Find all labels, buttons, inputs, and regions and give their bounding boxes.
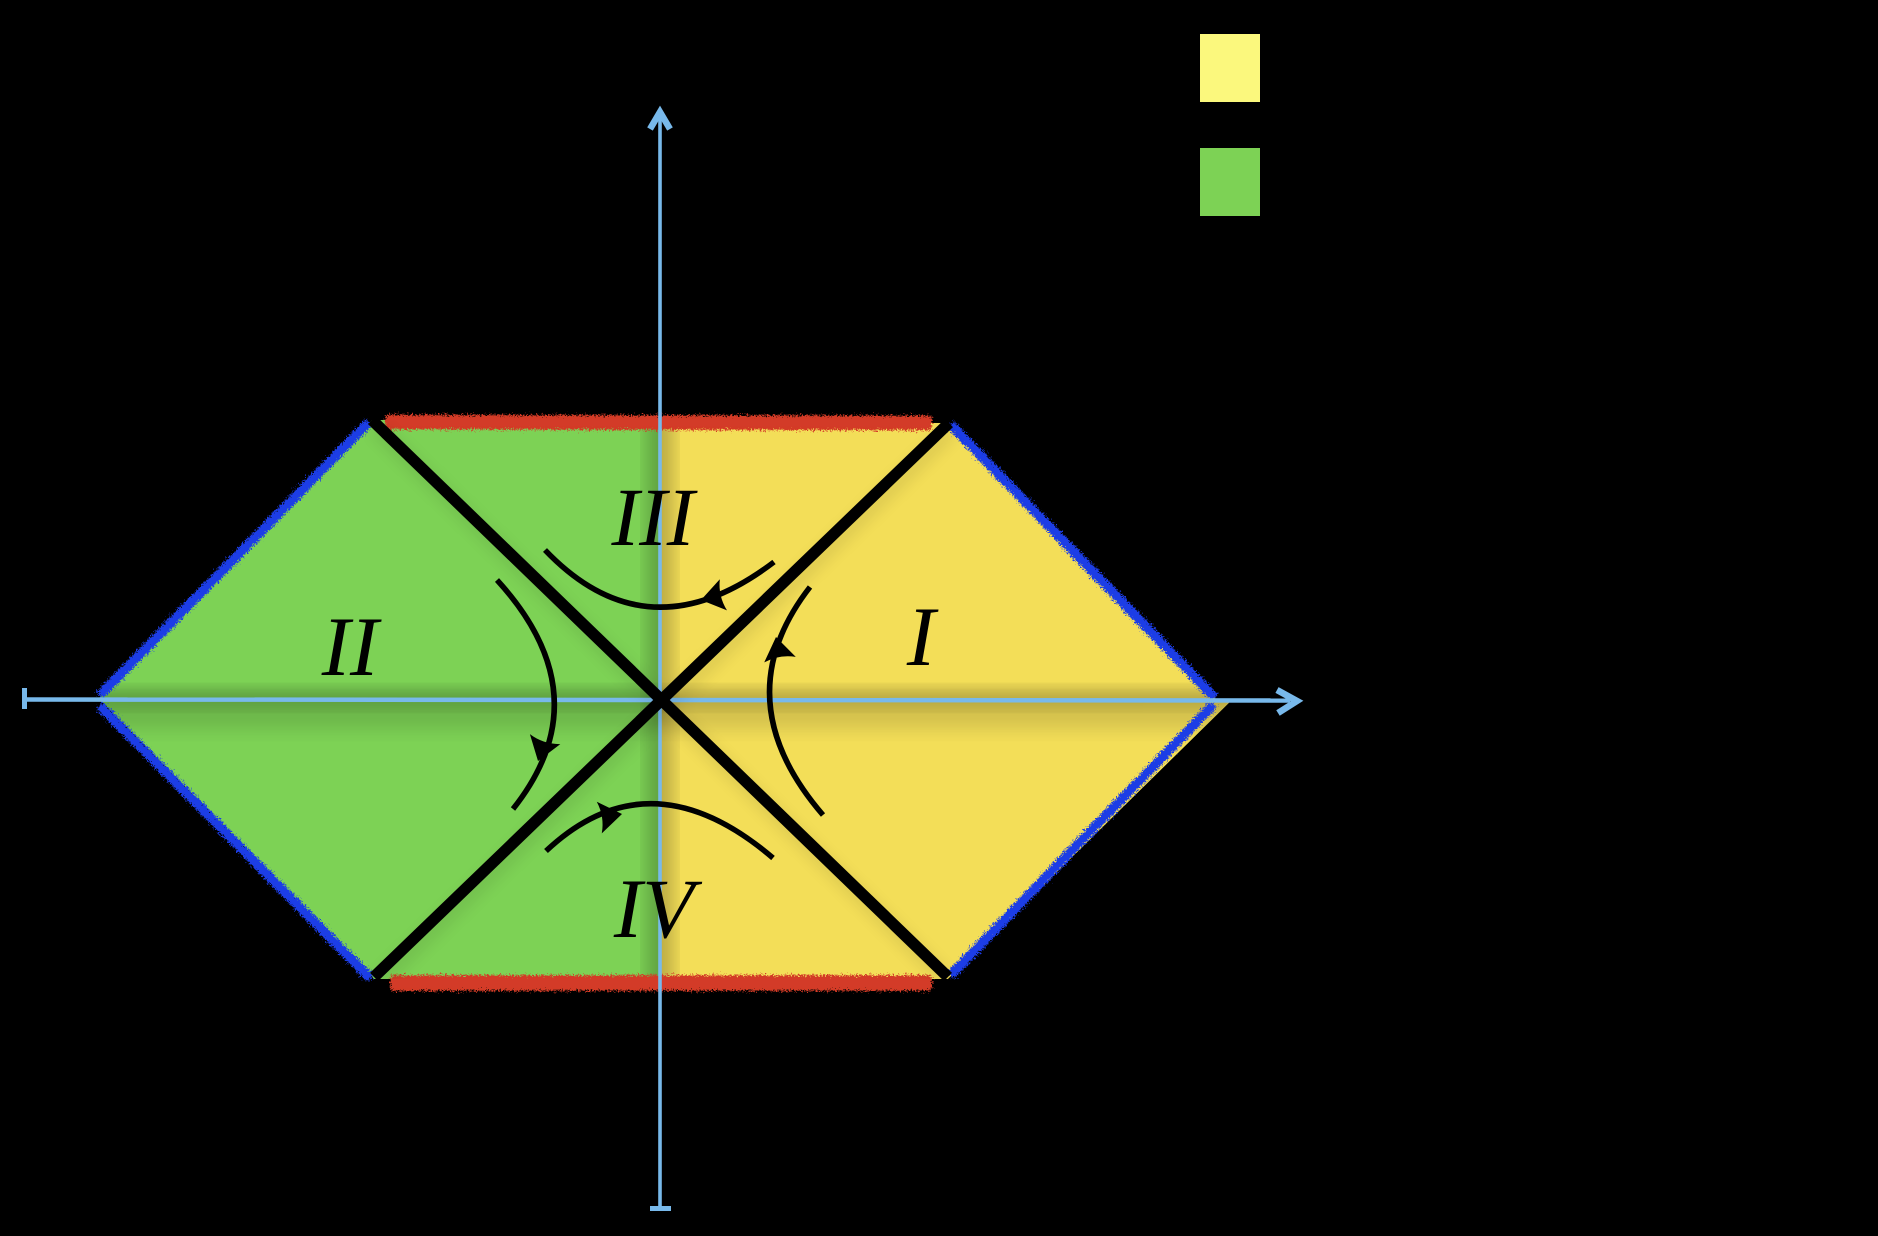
null infinity upper-right (blue crayon) (951, 425, 1214, 697)
null infinity lower-right (blue crayon) (951, 705, 1213, 975)
horizon diagonal (top-right to bottom-left) (374, 423, 949, 977)
horizon shadows (375, 427, 952, 984)
x axis left cap (22, 688, 27, 709)
flow arc region II (497, 580, 554, 809)
flow arc region IV (546, 804, 773, 858)
singularity top (red crayon) (386, 422, 931, 423)
svg-text:II: II (321, 600, 382, 694)
flow arc region I (770, 587, 823, 815)
t axis bottom cap (650, 1206, 671, 1211)
singularity bottom (red crayon) (391, 976, 931, 990)
region fill yellow (x>0 half of diagram) (660, 420, 1230, 979)
svg-text:IV: IV (613, 862, 703, 956)
legend swatch yellow (1200, 34, 1260, 102)
x axis (24, 700, 1290, 701)
legend swatch green (1200, 148, 1260, 216)
arrowhead region II (523, 734, 561, 766)
null infinity lower-left (blue crayon) (100, 706, 370, 978)
svg-text:I: I (906, 590, 939, 684)
null infinity upper-left (blue crayon) (100, 423, 368, 695)
region fill green (x<0 half of diagram) (98, 420, 660, 979)
shadow band along vertical join (651, 400, 669, 1000)
t axis (658, 113, 662, 1207)
arrowhead region III (697, 579, 727, 615)
shadow band along horizontal join (80, 691, 1240, 705)
x axis arrowhead (1277, 690, 1297, 713)
horizon diagonal (top-left to bottom-right) (372, 420, 948, 977)
arrowhead region I (760, 634, 796, 662)
flow arc region III (545, 550, 774, 607)
t axis arrowhead (650, 112, 670, 129)
arrowhead region IV (597, 798, 625, 833)
svg-text:III: III (611, 471, 698, 563)
